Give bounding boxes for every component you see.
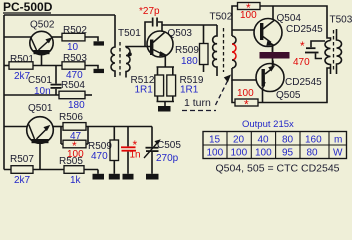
- svg-text:470: 470: [91, 151, 108, 162]
- svg-text:R507: R507: [10, 154, 34, 165]
- resistor network R506: [59, 112, 88, 160]
- resistor R501: [9, 54, 34, 82]
- svg-text:T502: T502: [210, 12, 233, 23]
- svg-text:T503: T503: [330, 15, 352, 26]
- output table: [203, 119, 347, 159]
- wire bottom row left: [4, 169, 98, 171]
- wire collector bus: [88, 126, 152, 128]
- svg-text:180: 180: [68, 100, 85, 111]
- wire Q504 emitter lead: [272, 46, 274, 53]
- svg-text:C501: C501: [28, 75, 52, 86]
- transformer T503: [325, 15, 352, 75]
- wire left rail: [3, 15, 5, 170]
- wire Q505 collector lead: [262, 89, 264, 103]
- svg-text:40: 40: [258, 135, 270, 146]
- wire top supply rail right: [260, 6, 331, 41]
- svg-text:R502: R502: [63, 25, 87, 36]
- transistor Q502: [30, 20, 55, 55]
- svg-text:15: 15: [209, 135, 221, 146]
- wire T501 secondary to Q503 base: [126, 47, 150, 48]
- transistor Q504: [254, 13, 323, 47]
- svg-text:100: 100: [231, 148, 248, 159]
- svg-text:R506: R506: [59, 112, 83, 123]
- svg-text:C505: C505: [157, 140, 181, 151]
- wire Q503 collector to rail: [161, 25, 163, 31]
- resistor R512: [131, 75, 164, 96]
- svg-text:80: 80: [307, 148, 319, 159]
- resistor R504: [59, 80, 85, 111]
- wire R501 to R503 row: [33, 65, 62, 67]
- wire Q501 collector to R506: [53, 126, 61, 128]
- svg-text:R509: R509: [175, 45, 199, 56]
- svg-text:R504: R504: [61, 80, 85, 91]
- svg-text:*: *: [300, 39, 305, 53]
- capacitor 27p feedback: [139, 6, 162, 47]
- transistor Q501: [27, 103, 54, 143]
- resistor R507: [10, 154, 34, 186]
- capacitor C505 variable: [144, 127, 181, 165]
- wire R503 to terminal: [85, 66, 98, 69]
- wire R502 to terminal: [85, 37, 98, 41]
- ground G4: [146, 152, 159, 180]
- ground G3: [123, 152, 134, 180]
- wire Q501 emitter lead: [39, 142, 41, 170]
- wire bias lower to T503: [258, 68, 331, 103]
- wire Q502 emitter to R502: [52, 36, 62, 38]
- wire top rail left section: [4, 14, 115, 16]
- resistor R502: [62, 25, 87, 53]
- terminal pad lower: [94, 69, 105, 73]
- svg-text:100: 100: [255, 148, 272, 159]
- transformer T501: [111, 15, 141, 78]
- resistor bias 100 upper: [238, 1, 261, 21]
- wire Q502 bottom lead: [41, 53, 43, 66]
- svg-text:100: 100: [207, 148, 224, 159]
- svg-text:1R1: 1R1: [135, 85, 154, 96]
- transistor Q503: [147, 28, 192, 57]
- svg-text:1k: 1k: [70, 175, 82, 184]
- svg-text:1R1: 1R1: [180, 85, 199, 96]
- wire Q503 emitter lead: [164, 55, 167, 68]
- wire T502 secondary top to bias and Q504 base: [232, 6, 238, 36]
- svg-text:Output 215x: Output 215x: [242, 119, 294, 130]
- svg-text:Q505: Q505: [276, 90, 301, 101]
- svg-text:20: 20: [233, 135, 245, 146]
- capacitor C501: [28, 66, 62, 98]
- svg-text:10: 10: [67, 42, 79, 53]
- svg-text:Q504, 505 = CTC CD2545: Q504, 505 = CTC CD2545: [216, 163, 340, 175]
- resistor R509 lower: [88, 127, 119, 163]
- wire Q502 base from rail: [4, 36, 31, 38]
- svg-text:270p: 270p: [156, 153, 179, 164]
- svg-text:1n: 1n: [130, 150, 141, 161]
- wire Q504 base: [232, 29, 255, 31]
- note 1 turn with dashed arrow: [182, 75, 231, 111]
- svg-text:470: 470: [293, 57, 310, 68]
- svg-text:80: 80: [282, 135, 294, 146]
- svg-text:160: 160: [305, 135, 322, 146]
- wire rail to R501: [4, 65, 9, 67]
- capacitor 1n trimmer (red): [121, 127, 141, 161]
- capacitor 470 (red label): [293, 39, 325, 68]
- svg-text:2k7: 2k7: [14, 175, 31, 184]
- svg-text:Q502: Q502: [30, 20, 55, 31]
- svg-text:R501: R501: [10, 54, 34, 65]
- svg-text:Q501: Q501: [28, 103, 53, 114]
- wire R504 stub right: [85, 94, 92, 96]
- transistor Q505: [256, 64, 322, 102]
- wire Q505 emitter lead: [272, 61, 274, 67]
- ground G1: [93, 170, 105, 180]
- title PC-500D: [3, 0, 53, 14]
- svg-text:CD2545: CD2545: [286, 24, 323, 35]
- ground G2: [109, 161, 120, 180]
- resistor R519: [167, 75, 204, 96]
- resistor R509 upper: [175, 25, 208, 72]
- wire T502 secondary bottom to Q505 base: [232, 68, 257, 80]
- svg-text:W: W: [333, 148, 343, 159]
- resistor bias 100 lower: [235, 88, 258, 112]
- wire R504 row: [4, 94, 59, 96]
- svg-text:*27p: *27p: [139, 6, 160, 17]
- ground G5: [158, 102, 171, 112]
- emitter bus bar (dark): [272, 45, 274, 67]
- terminal pad upper: [94, 41, 105, 45]
- svg-text:180: 180: [181, 56, 198, 67]
- svg-text:95: 95: [282, 148, 294, 159]
- svg-text:100: 100: [240, 10, 257, 21]
- resistor R505: [59, 156, 84, 186]
- wire collector rail to T502: [162, 24, 217, 26]
- svg-text:T501: T501: [118, 28, 141, 39]
- svg-text:1 turn: 1 turn: [184, 97, 211, 109]
- svg-text:CD2545: CD2545: [285, 77, 322, 88]
- wire Q504 collector to rail: [272, 6, 274, 19]
- svg-text:m: m: [334, 135, 342, 146]
- svg-text:*: *: [244, 98, 249, 112]
- transformer T502: [210, 12, 237, 77]
- svg-text:Q504: Q504: [277, 13, 302, 24]
- wire R512 R519 junction bars: [157, 67, 175, 102]
- resistor R503: [62, 53, 87, 81]
- wire Q505 base to bias lower: [232, 80, 235, 103]
- wire Q501 base from rail: [4, 126, 27, 128]
- svg-text:PC-500D: PC-500D: [3, 0, 53, 14]
